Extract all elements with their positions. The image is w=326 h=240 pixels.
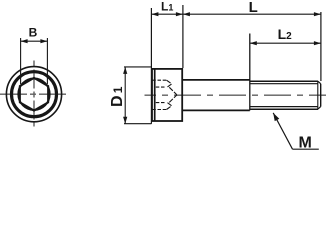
thread crest bottom line <box>250 108 318 110</box>
L arrow right <box>314 12 321 16</box>
side view centerline <box>145 94 326 96</box>
hex socket hidden line upper outer <box>152 79 167 81</box>
L1 / L shared extension line (head right) <box>182 5 184 68</box>
end chamfer diagonal top <box>318 81 321 84</box>
hex socket hidden line upper inner <box>156 86 166 88</box>
front view: vertical centerline <box>33 61 35 127</box>
head outline rectangle <box>152 69 182 121</box>
socket step lower chevron <box>167 103 172 110</box>
M leader diagonal <box>273 113 292 149</box>
M leader arrow <box>273 113 279 121</box>
M leader horizontal <box>293 148 319 150</box>
svg-text:L1: L1 <box>161 0 173 14</box>
thread root bottom line <box>250 106 318 108</box>
L / L2 shared right extension line <box>320 12 322 81</box>
shank top edge <box>182 79 250 81</box>
front view: horizontal centerline <box>0 93 67 95</box>
hex socket hidden line lower outer <box>152 109 167 111</box>
thread end chamfer vertical <box>317 81 319 109</box>
head chamfer crease line <box>154 69 156 121</box>
L1 arrow right <box>176 12 183 16</box>
D1 arrow down <box>123 117 127 124</box>
D1 dimension line <box>124 67 126 124</box>
D1 extension line bottom <box>124 123 151 125</box>
shank bottom edge <box>182 109 250 111</box>
hex socket hexagon <box>20 78 48 111</box>
socket step upper chevron <box>167 80 172 87</box>
head chamfer circle (thick) <box>12 72 57 117</box>
thread start vertical / L2 left extension line <box>249 34 251 111</box>
thread root top line <box>250 83 318 85</box>
svg-text:D1: D1 <box>109 86 126 107</box>
L1 arrow left <box>151 12 158 16</box>
svg-text:M: M <box>299 134 312 151</box>
B dimension extension line right <box>46 38 48 84</box>
hex socket hidden line lower inner <box>156 102 166 104</box>
L2 arrow right <box>314 41 321 45</box>
svg-text:L: L <box>249 0 258 16</box>
head face line / L1 left extension line <box>150 8 152 124</box>
D1 arrow up <box>123 67 127 74</box>
B dimension extension line left <box>20 38 22 84</box>
head outer circle <box>6 67 61 122</box>
socket cone upper diagonal <box>169 87 177 95</box>
L dimension line <box>183 13 321 15</box>
B dimension arrow right <box>40 39 47 43</box>
end chamfer diagonal bottom <box>318 107 321 110</box>
screw end face <box>320 84 322 107</box>
L2 dimension line <box>250 42 321 44</box>
B dimension arrow left <box>21 39 28 43</box>
svg-text:B: B <box>29 26 38 40</box>
socket chamfer circle <box>18 79 49 110</box>
thread crest top line <box>250 80 318 82</box>
L arrow left <box>183 12 190 16</box>
socket cone lower diagonal <box>169 95 177 103</box>
D1 extension line top <box>124 66 151 68</box>
B dimension line <box>21 40 48 42</box>
L1 dimension line <box>151 13 183 15</box>
L2 arrow left <box>250 41 257 45</box>
